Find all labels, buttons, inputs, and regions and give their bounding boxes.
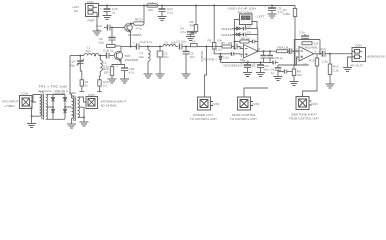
node L2 tap	[99, 55, 101, 57]
wire IC2 pin3 drop	[297, 57, 300, 65]
ground C18	[120, 79, 129, 83]
capacitor C21 series coupling	[290, 49, 300, 55]
ground power	[93, 31, 102, 35]
wire TR2 sec top to antenna	[78, 97, 87, 102]
capacitor C13b feedback	[301, 34, 309, 40]
wire TR1 sec bottom to ring	[46, 118, 53, 120]
op-amp IC1 CA3140	[244, 45, 259, 59]
wire feedback IC2 left riser	[294, 40, 320, 52]
inductor L5 series	[163, 45, 178, 47]
node D1 row left	[234, 28, 236, 30]
inductor L2	[100, 56, 103, 80]
label CON sidetone	[311, 102, 318, 106]
ground R13	[326, 84, 335, 88]
node D2 row left	[234, 34, 236, 36]
svg-text:FROM CONTROL UNIT: FROM CONTROL UNIT	[289, 117, 319, 121]
connector J2 VFO	[20, 96, 37, 109]
node D5 tap	[220, 53, 222, 55]
svg-text:3.3n: 3.3n	[299, 31, 305, 35]
ground C6	[274, 77, 283, 81]
node IC2 output	[319, 53, 321, 55]
svg-text:C10: C10	[140, 40, 146, 44]
svg-text:39k: 39k	[190, 24, 195, 28]
svg-text:10u: 10u	[99, 41, 104, 45]
node choke-collector	[130, 23, 132, 25]
node bias R7	[294, 64, 296, 66]
svg-text:2N3866: 2N3866	[125, 58, 139, 62]
resistor R7	[293, 9, 296, 66]
svg-text:10n: 10n	[190, 55, 195, 59]
wire TR2 sec bottom	[78, 116, 85, 118]
choke RFC1	[131, 22, 144, 25]
emitter network Q2: resistor R16	[110, 65, 121, 80]
svg-text:C14: C14	[320, 47, 326, 51]
capacitor C6 bias decouple	[275, 65, 281, 77]
wire to power out connector	[205, 47, 207, 98]
svg-text:C9: C9	[247, 31, 251, 35]
svg-text:TR1 + TR2 3x8t: TR1 + TR2 3x8t	[38, 85, 67, 89]
resistor R6 series	[222, 45, 234, 48]
node ring right mid	[64, 106, 66, 108]
svg-text:TO PIN 7: TO PIN 7	[203, 58, 217, 62]
svg-text:10k: 10k	[228, 41, 233, 45]
svg-text:2.2u: 2.2u	[322, 60, 328, 64]
resistor R13 load	[328, 54, 331, 84]
svg-text:+: +	[133, 40, 135, 44]
resistor R2 feedback bias	[107, 45, 122, 48]
svg-text:+: +	[265, 5, 267, 9]
ground C15	[103, 16, 112, 20]
wire bias node line	[278, 64, 308, 66]
inductor L10	[147, 4, 159, 7]
node rail-C13	[161, 5, 163, 7]
transformer TR1	[31, 94, 48, 120]
svg-text:C1B: C1B	[103, 49, 109, 53]
svg-text:68u: 68u	[264, 68, 269, 72]
wire filter row	[148, 46, 163, 48]
capacitor C15	[104, 6, 111, 16]
svg-text:CON: CON	[213, 102, 220, 106]
label T1	[40, 90, 44, 94]
svg-text:1u: 1u	[112, 11, 116, 15]
svg-text:1N4148: 1N4148	[221, 33, 234, 37]
svg-text:TR2: TR2	[70, 91, 76, 95]
diode D5 supply	[219, 54, 222, 63]
ground L4	[144, 74, 153, 78]
text 1N4148 quad	[53, 91, 66, 95]
capacitor C6 series R8	[253, 40, 258, 44]
label CON mute	[253, 102, 260, 106]
resistor C16b term	[97, 80, 102, 92]
capacitor shunt out2	[267, 51, 273, 62]
svg-text:10u: 10u	[86, 49, 91, 53]
svg-text:0.1u: 0.1u	[167, 11, 173, 15]
crystal X1 shunt	[157, 47, 163, 75]
capacitor C11 series	[180, 44, 189, 50]
svg-text:CA3140E: CA3140E	[302, 46, 318, 50]
svg-text:1.5n: 1.5n	[216, 48, 222, 52]
transformer TR2	[72, 96, 80, 124]
node ring left mid	[52, 106, 54, 108]
wire collector row	[121, 46, 137, 48]
capacitor C5 rail decouple	[268, 6, 276, 15]
ground C20	[256, 73, 265, 77]
node output shunt 1	[263, 50, 265, 52]
node rail R4 drop	[195, 5, 197, 7]
wire pot right	[252, 22, 257, 29]
node TR2 tap	[83, 117, 85, 119]
capacitor C8 series D1	[244, 27, 258, 31]
connector J3 sidetone	[296, 97, 312, 110]
ground R8	[290, 82, 299, 86]
wire feedback IC2 right drop	[319, 40, 321, 54]
node rail cap1	[247, 62, 249, 64]
wire pot bottom	[245, 25, 247, 29]
capacitor shunt out1	[261, 51, 267, 62]
diode D2 limiter	[235, 33, 244, 36]
ground C12	[182, 74, 191, 78]
ground TR2 tap	[80, 122, 89, 126]
capacitor C7 series	[235, 44, 244, 50]
svg-text:1.8M: 1.8M	[283, 12, 290, 16]
inductor L4 shunt	[148, 47, 150, 75]
node - input	[234, 48, 236, 50]
svg-text:0.1: 0.1	[103, 84, 108, 88]
transistor Q1 2N3866	[122, 24, 132, 37]
svg-text:4.7u: 4.7u	[136, 27, 142, 31]
ground crystal	[156, 74, 165, 78]
node rail bias drop	[213, 5, 215, 7]
node rail-C15	[106, 5, 108, 7]
node base bias tap	[111, 27, 113, 29]
node output shunt 2	[269, 50, 271, 52]
op-amp IC2 CA3140	[299, 47, 314, 62]
resistor R5 bias	[213, 6, 232, 54]
ground headphone	[343, 68, 352, 72]
capacitor C4A decouple	[187, 32, 194, 37]
svg-text:CON: CON	[87, 0, 94, 4]
svg-text:+7dBm: +7dBm	[4, 104, 16, 108]
node L1-L2	[94, 55, 96, 57]
wire mute line	[244, 88, 268, 97]
svg-text:R5A: R5A	[278, 46, 284, 50]
connector J6 power input	[86, 4, 99, 17]
svg-text:+: +	[117, 65, 119, 69]
svg-text:C4: C4	[176, 40, 180, 44]
diode D1 limiter	[235, 27, 244, 30]
wire rail end corner to R7	[294, 6, 296, 9]
connector J5 power out	[198, 97, 214, 110]
capacitor C17 rail end	[270, 61, 278, 65]
ground C13	[158, 17, 167, 21]
svg-text:CON: CON	[253, 102, 260, 106]
resistor R15 sidetone	[303, 54, 319, 97]
transistor Q2	[114, 47, 122, 65]
resistor R8 bias lower	[292, 65, 295, 82]
svg-text:51: 51	[85, 84, 89, 88]
svg-text:10u: 10u	[148, 8, 153, 12]
svg-text:C8: C8	[247, 25, 251, 29]
svg-text:65p: 65p	[70, 63, 75, 67]
wire tank top	[70, 55, 84, 57]
wire TR1 sec top to ring	[46, 94, 53, 96]
connector J6b mute	[238, 97, 254, 110]
wire TR2 sec center tap	[78, 107, 85, 122]
svg-text:+: +	[100, 7, 102, 11]
svg-text:RFC1: RFC1	[135, 18, 143, 22]
node output-feedback	[257, 50, 259, 52]
wire +12V rail top	[99, 5, 296, 7]
diode ring D1-D4	[51, 95, 66, 120]
svg-text:R8 1M: R8 1M	[241, 37, 250, 41]
capacitor C9 series D2	[244, 33, 258, 37]
label to pin7	[203, 58, 217, 62]
label TR2	[70, 91, 76, 95]
capacitor C22 branch	[278, 70, 292, 74]
label CON power out	[213, 102, 220, 106]
capacitor C2 bias	[109, 28, 116, 45]
resistor R1 term	[79, 80, 84, 92]
svg-text:L5: L5	[165, 41, 169, 45]
svg-text:4.7u: 4.7u	[147, 40, 153, 44]
svg-text:TO CONTROL UNIT: TO CONTROL UNIT	[230, 117, 257, 121]
svg-text:22k: 22k	[284, 46, 289, 50]
ground C19	[243, 73, 252, 77]
svg-text:AF OUT: AF OUT	[350, 64, 363, 68]
svg-text:1u: 1u	[271, 71, 275, 75]
connector J1 antenna	[86, 97, 98, 109]
svg-text:L10: L10	[149, 1, 154, 5]
node filter input	[147, 46, 149, 48]
capacitor C7a bias bypass	[232, 52, 244, 56]
node shunt C12	[185, 46, 187, 48]
node crystal tap	[159, 46, 161, 48]
svg-text:IC1b: IC1b	[303, 63, 310, 67]
svg-text:HEADPHONES ONLY: HEADPHONES ONLY	[367, 55, 386, 59]
wire rail to choke	[143, 6, 145, 24]
wire TR1 sec center tap	[46, 106, 53, 108]
note use lin pot	[228, 7, 257, 15]
svg-text:4.7u: 4.7u	[129, 71, 135, 75]
svg-text:50 OHMS: 50 OHMS	[101, 104, 117, 108]
wire ring mid to TR2	[65, 106, 72, 108]
resistor R4	[191, 6, 198, 34]
svg-text:T4: T4	[192, 40, 196, 44]
svg-text:CON: CON	[88, 93, 95, 97]
svg-text:PWR: PWR	[88, 19, 96, 23]
svg-text:1u: 1u	[96, 28, 100, 32]
resistor R8 feedback	[235, 40, 253, 43]
ground TR2 primary bottom	[67, 124, 76, 128]
node TR1 primary gnd	[31, 115, 33, 117]
node IC2 inv input	[293, 50, 295, 52]
svg-text:→ LEFT: → LEFT	[254, 15, 265, 19]
ground TR1 primary	[31, 116, 33, 123]
svg-text:22k: 22k	[314, 42, 319, 46]
capacitor C1A trimmer	[77, 56, 84, 80]
svg-text:1u: 1u	[110, 49, 114, 53]
wire tank to mixer drop	[70, 56, 72, 97]
svg-text:100: 100	[104, 71, 109, 75]
node rail C5	[271, 5, 273, 7]
svg-text:CON: CON	[311, 102, 318, 106]
wire signal to opamp input	[207, 46, 223, 48]
svg-text:TO CONTROL UNIT: TO CONTROL UNIT	[190, 117, 217, 121]
polarity marks	[100, 5, 321, 69]
svg-text:+: +	[241, 62, 243, 66]
ground C5	[268, 14, 277, 18]
svg-text:1N4148: 1N4148	[221, 27, 234, 31]
svg-text:CON: CON	[22, 92, 29, 96]
node rail cap2	[260, 62, 262, 64]
capacitor C13	[159, 6, 166, 17]
node rail-RFC drop	[143, 5, 145, 7]
node tank trimmer	[79, 55, 81, 57]
capacitor C14 output	[323, 51, 353, 57]
ground C4A	[186, 37, 195, 41]
wire bottom supply rail	[221, 62, 271, 64]
capacitor C18 emitter bypass	[121, 65, 128, 80]
ground R16	[108, 79, 117, 83]
capacitor C2 base coupling	[104, 25, 122, 31]
node R8 row left	[234, 41, 236, 43]
svg-text:R15: R15	[309, 59, 315, 63]
wire IC2 pin2	[294, 50, 299, 52]
wire bias drop from pin2	[293, 51, 295, 65]
resistor R5A interstage	[277, 50, 290, 53]
svg-text:R5: R5	[208, 39, 212, 43]
svg-text:VFO INPUT: VFO INPUT	[2, 100, 19, 104]
svg-text:2.2n: 2.2n	[223, 56, 229, 60]
wire VFO gnd pin	[31, 107, 32, 116]
capacitor C19 rail	[244, 63, 251, 73]
svg-text:2.2k: 2.2k	[333, 69, 339, 73]
wire headphone ground	[348, 57, 353, 68]
node Q2 collector	[130, 46, 132, 48]
capacitor C12 shunt	[183, 47, 190, 75]
svg-text:10k: 10k	[297, 73, 302, 77]
svg-text:10n: 10n	[181, 40, 186, 44]
node R13 tap	[329, 53, 331, 55]
wire feedback right vertical	[257, 29, 259, 52]
svg-text:10u: 10u	[139, 55, 144, 59]
label VFO input	[2, 100, 19, 109]
svg-text:CON: CON	[355, 44, 362, 48]
svg-text:10n: 10n	[164, 55, 169, 59]
wire IC1 output	[258, 50, 277, 52]
wire pot left to feedback	[235, 20, 240, 49]
wire IC2 output	[314, 53, 323, 55]
svg-text:+: +	[319, 49, 321, 53]
capacitor C10 coupling	[137, 44, 149, 50]
capacitor C20 rail	[257, 63, 264, 73]
svg-text:R6: R6	[221, 41, 225, 45]
svg-text:+: +	[254, 62, 256, 66]
potentiometer VR1 RF gain	[240, 14, 253, 25]
svg-text:0.1u: 0.1u	[277, 56, 283, 60]
svg-text:1N5818: 1N5818	[228, 64, 240, 68]
capacitor C1B coupling	[100, 53, 114, 59]
connector J4 headphones	[352, 48, 366, 62]
node Q1 emitter to Q2 collector	[130, 36, 132, 47]
resistor R12 feedback	[302, 42, 312, 45]
inductor L1	[84, 53, 100, 55]
wire power connector ground drop	[96, 12, 98, 31]
node audio out tap	[206, 46, 208, 48]
svg-text:4.7u: 4.7u	[180, 30, 186, 34]
label +12V DC	[72, 5, 79, 13]
JFET Q3 mute 2N3819	[188, 44, 207, 47]
text transformer note	[38, 85, 69, 94]
